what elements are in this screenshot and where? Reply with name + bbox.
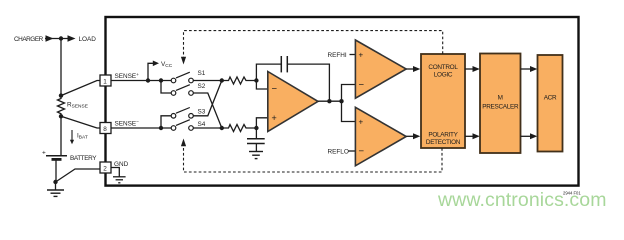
svg-text:RSENSE: RSENSE (67, 102, 88, 110)
resistor RSENSE (58, 97, 65, 117)
wire feedback right (287, 64, 329, 101)
wire comparator B to polarity (406, 135, 413, 137)
svg-text:S4: S4 (198, 121, 206, 128)
wire S3 branch (161, 116, 171, 128)
svg-text:8: 8 (103, 126, 107, 133)
node Rsense top (59, 93, 63, 97)
node battery ground junction (53, 180, 57, 184)
node minus input (254, 78, 258, 82)
wire jog to minus input (256, 81, 267, 90)
arrow charger into node (46, 35, 54, 41)
svg-text:+: + (359, 51, 364, 60)
switch S1 (171, 72, 193, 83)
svg-text:−: − (272, 84, 278, 95)
wire to comparator B plus (342, 101, 356, 121)
ground integrator input (249, 144, 263, 159)
svg-text:+: + (359, 118, 364, 127)
wire battery to ground node (55, 159, 57, 182)
svg-text:−: − (359, 80, 365, 91)
wire S1 to top node (193, 80, 222, 82)
node feedback tap (327, 99, 331, 103)
node comparator branch (339, 99, 343, 103)
svg-text:REFLO: REFLO (328, 149, 349, 156)
svg-text:LOGIC: LOGIC (434, 72, 453, 79)
pin 1 SENSE+ (100, 75, 111, 86)
svg-text:SENSE+: SENSE+ (115, 73, 140, 80)
wire feedback left + top (256, 64, 281, 80)
block ACR (538, 55, 563, 152)
wire REFLO stub (349, 150, 356, 152)
arrow node to load (68, 35, 76, 41)
ground internal GND pin (113, 177, 126, 183)
svg-text:CHARGER: CHARGER (14, 36, 44, 43)
current arrow IBAT (70, 130, 74, 144)
pin 8 SENSE- (100, 123, 111, 134)
supply VCC arrow (148, 61, 159, 81)
IC package outline U1 (106, 17, 579, 186)
wire S2 branch (161, 81, 171, 94)
svg-text:1: 1 (103, 78, 107, 85)
node S2 branch (159, 78, 163, 82)
wire SENSE+ rail (111, 80, 171, 82)
wire Rsense top to pin 1 (61, 81, 101, 96)
capacitor C1 feedback (281, 56, 287, 72)
arrow dashed down to switches (181, 57, 186, 65)
watermark cntronics (438, 189, 607, 212)
svg-text:S1: S1 (198, 70, 206, 77)
svg-text:2: 2 (103, 165, 107, 172)
wire to comparator A minus (342, 85, 356, 102)
dashed control path top (184, 31, 443, 58)
node VCC tap (146, 78, 150, 82)
wire REFHI stub (350, 54, 356, 56)
svg-text:S3: S3 (198, 109, 206, 116)
svg-text:PRESCALER: PRESCALER (482, 104, 519, 111)
comparator U3 upper (355, 40, 406, 98)
node plus input (254, 126, 258, 130)
svg-text:+: + (42, 150, 46, 157)
pin 2 GND (100, 162, 111, 173)
wire S2 cross to bottom node (193, 93, 222, 128)
svg-text:DETECTION: DETECTION (426, 139, 461, 146)
svg-text:VCC: VCC (161, 61, 173, 69)
wire integrator output (318, 100, 342, 102)
arrow dashed up to switches (181, 139, 186, 147)
svg-text:+: + (272, 113, 277, 123)
resistor R2 bottom (222, 125, 257, 132)
node Rsense bottom (59, 114, 63, 118)
node integrator top input (220, 78, 224, 82)
ground external (47, 182, 64, 196)
svg-text:BATTERY: BATTERY (70, 155, 97, 162)
resistor R1 top (222, 77, 257, 84)
wire Rsense bottom to pin 8 (61, 116, 101, 128)
wire comparator A to control logic (406, 68, 413, 70)
svg-text:S2: S2 (198, 83, 206, 90)
wire ground node to pin 2 (56, 169, 101, 182)
wire rail down to battery (60, 116, 62, 156)
wire polarity to prescaler (465, 135, 473, 137)
svg-text:M: M (498, 95, 503, 102)
wire control logic to prescaler (465, 68, 473, 70)
block control logic / polarity detection (421, 54, 465, 148)
switch S4 (171, 120, 193, 131)
capacitor C2 plus input to ground (247, 128, 265, 144)
svg-text:IBAT: IBAT (77, 133, 88, 141)
node integrator bottom input (220, 126, 224, 130)
svg-text:ACR: ACR (544, 95, 557, 102)
wire rail down to Rsense (60, 39, 62, 98)
switch S3 (171, 108, 193, 119)
svg-text:LOAD: LOAD (79, 36, 97, 43)
switch S2 (171, 85, 193, 96)
wire jog to plus input (256, 118, 267, 128)
wire prescaler to ACR top (521, 68, 531, 70)
wire prescaler to ACR bottom (521, 135, 531, 137)
svg-text:SENSE−: SENSE− (115, 121, 140, 128)
svg-text:−: − (359, 146, 365, 157)
svg-text:REFHI: REFHI (328, 52, 347, 59)
svg-text:CONTROL: CONTROL (428, 64, 458, 71)
wire SENSE- rail (111, 127, 171, 129)
dashed control path bottom (184, 146, 443, 173)
wire gnd pin to ground (111, 168, 119, 177)
battery BT1 (46, 156, 67, 160)
svg-text:POLARITY: POLARITY (428, 132, 458, 139)
wire S4 to bottom node (193, 127, 222, 129)
op-amp U2 integrator (268, 72, 318, 132)
wire S3 cross to top node (193, 81, 222, 116)
comparator U4 lower (355, 107, 406, 166)
node S3 branch (159, 126, 163, 130)
block M prescaler (480, 54, 521, 154)
wire charger-load top rail (45, 38, 68, 40)
node top junction (59, 36, 63, 40)
